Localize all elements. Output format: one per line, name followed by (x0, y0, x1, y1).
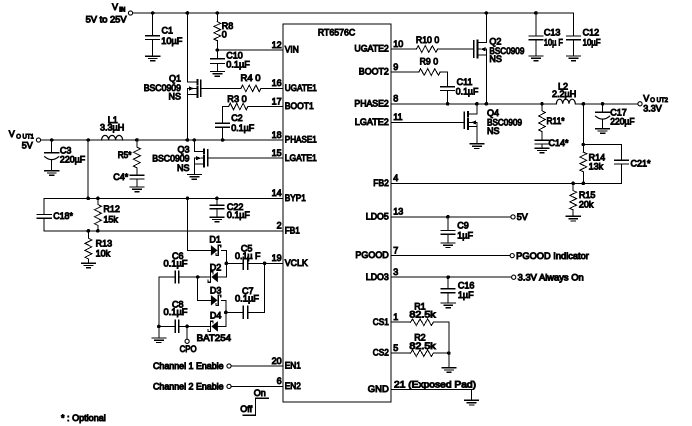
svg-text:1µF: 1µF (457, 230, 473, 240)
op-amp U1 RT6576C box (283, 24, 391, 402)
wire FB1 line (44, 230, 283, 232)
svg-text:FB1: FB1 (285, 226, 300, 236)
junction ground rail-D4 row (157, 325, 161, 329)
wire LGATE1 pin15 (208, 157, 283, 159)
svg-text:LDO5: LDO5 (366, 212, 389, 222)
svg-text:1: 1 (393, 312, 398, 322)
wire UGATE1 gate lead (201, 87, 241, 89)
svg-text:PHASE1: PHASE1 (285, 135, 317, 145)
ground C10 (210, 72, 224, 77)
svg-text:D1: D1 (209, 235, 221, 245)
inductor L2 (552, 82, 576, 104)
svg-text:0.1µF: 0.1µF (456, 86, 479, 96)
junction C7 riser-VCLK (263, 262, 267, 266)
diode D3 (210, 285, 222, 305)
wire UGATE2 pin10 (391, 48, 416, 50)
wire n2 to D3 (198, 277, 211, 300)
capacitor C2 (216, 107, 255, 141)
capacitor C11 (441, 77, 479, 96)
svg-text:V: V (9, 129, 15, 139)
junction C2-PHASE1 (221, 138, 225, 142)
junction R5 (135, 138, 139, 142)
capacitor C22 (210, 198, 250, 220)
svg-text:17: 17 (272, 96, 282, 106)
svg-text:UGATE2: UGATE2 (354, 44, 388, 54)
junction R12 bottom (96, 229, 100, 233)
ground charge pump (152, 338, 166, 343)
junction R14 bottom (582, 182, 586, 186)
svg-text:20k: 20k (579, 199, 594, 209)
svg-text:C1: C1 (162, 26, 174, 36)
wire VIN pin12 (216, 48, 284, 52)
junction R1R2 (447, 351, 451, 355)
svg-text:10: 10 (393, 39, 403, 49)
svg-text:LGATE1: LGATE1 (285, 153, 317, 163)
wire EN1 pin20 (231, 365, 283, 367)
resistor R11 (539, 104, 565, 141)
wire C7 to riser (248, 311, 265, 313)
svg-text:BOOT2: BOOT2 (359, 67, 389, 77)
transistor Q1 (187, 13, 201, 97)
svg-text:Off: Off (240, 404, 252, 414)
svg-text:11: 11 (393, 112, 402, 122)
junction D3 feed (196, 275, 200, 279)
svg-text:3.3V: 3.3V (643, 103, 662, 113)
ground C16 (441, 303, 455, 308)
svg-text:10µ F: 10µ F (544, 37, 563, 47)
svg-text:C4*: C4* (113, 172, 128, 182)
svg-text:C13: C13 (544, 27, 561, 37)
svg-text:VCLK: VCLK (285, 258, 308, 268)
svg-text:3.3µH: 3.3µH (100, 123, 124, 133)
junction R11 (540, 102, 544, 106)
label Q3 (152, 145, 189, 174)
svg-text:2.2µH: 2.2µH (552, 89, 576, 99)
wire Q3 source to ground (193, 164, 195, 174)
svg-text:NS: NS (177, 163, 190, 173)
svg-text:5V: 5V (22, 140, 33, 150)
svg-text:14: 14 (272, 188, 282, 198)
resistor R4 (241, 73, 261, 92)
diode D4 (197, 311, 231, 343)
svg-text:0.1µF: 0.1µF (227, 210, 250, 220)
node 3.3V terminal (512, 273, 584, 283)
svg-text:15k: 15k (103, 214, 118, 224)
ground R1R2 (442, 368, 456, 373)
svg-text:220µF: 220µF (610, 116, 635, 126)
ground C4 (130, 187, 144, 192)
ground C1 (146, 56, 160, 61)
wire R4 to pin16 (261, 87, 283, 89)
wire C21 branch (583, 145, 621, 161)
svg-text:82.5k: 82.5k (409, 341, 436, 351)
ground R15 (566, 216, 580, 221)
resistor R13 (85, 231, 112, 263)
resistor R15 (570, 183, 596, 216)
svg-text:R11*: R11* (547, 116, 565, 126)
svg-text:BAT254: BAT254 (197, 333, 231, 343)
svg-text:C12: C12 (583, 27, 600, 37)
junction C1-rail (151, 11, 155, 15)
svg-text:Channel 2 Enable: Channel 2 Enable (153, 381, 224, 391)
ground Q3 (187, 175, 201, 180)
svg-text:PGOOD Indicator: PGOOD Indicator (516, 251, 589, 261)
svg-text:PHASE2: PHASE2 (354, 98, 388, 108)
svg-text:CPO: CPO (180, 344, 197, 354)
wire D4 row (159, 325, 226, 327)
wire Q4 source to ground (476, 127, 478, 144)
capacitor C16 (441, 277, 474, 303)
wire LDO5 pin13 (391, 216, 511, 218)
svg-text:8: 8 (393, 94, 398, 104)
svg-text:6: 6 (277, 376, 282, 386)
diode D1 (209, 235, 221, 256)
transistor Q2 (474, 13, 487, 57)
capacitor C3 (45, 140, 86, 171)
svg-text:2: 2 (277, 221, 282, 231)
junction n3 C7 tap (224, 311, 228, 315)
svg-text:V: V (112, 2, 118, 12)
node VIN input terminal (86, 2, 133, 24)
wire PHASE2 line (391, 103, 638, 105)
wire C21 to FB2 (620, 164, 622, 183)
svg-text:PGOOD: PGOOD (355, 250, 389, 260)
label Q2 NS (489, 54, 502, 64)
junction R15 top (571, 182, 575, 186)
ground C17 (596, 129, 610, 134)
wire D3 cathode to n3 (221, 300, 226, 326)
svg-text:4: 4 (393, 173, 398, 183)
svg-text:VIN: VIN (285, 45, 299, 55)
svg-text:EN1: EN1 (285, 361, 301, 371)
transistor Q4 (464, 104, 476, 129)
wire PGOOD pin7 (391, 255, 510, 257)
inductor L1 (100, 115, 124, 140)
svg-text:C9: C9 (457, 221, 469, 231)
label Q2 (489, 36, 524, 56)
junction VOUT1-FB riser top (86, 138, 90, 142)
junction C17 (601, 102, 605, 106)
svg-text:0.1µ F: 0.1µ F (235, 251, 261, 261)
svg-text:V: V (643, 93, 649, 103)
diode D2 (208, 262, 221, 282)
wire ground rail stub (158, 326, 160, 338)
svg-text:NS: NS (489, 54, 502, 64)
svg-text:RT6576C: RT6576C (318, 27, 356, 37)
wire VOUT2 to divider (582, 104, 584, 145)
node 5V terminal (511, 212, 528, 222)
svg-text:Q1: Q1 (169, 73, 181, 83)
svg-text:0: 0 (222, 29, 227, 39)
capacitor C4 (113, 172, 143, 187)
capacitor C13 (529, 13, 563, 56)
junction C13-rail (534, 11, 538, 15)
node EN1 input (153, 361, 231, 371)
svg-text:BYP1: BYP1 (285, 193, 306, 203)
resistor R8 (214, 13, 233, 50)
svg-text:Channel 1 Enable: Channel 1 Enable (153, 361, 224, 371)
symbol on-off step (240, 388, 268, 415)
svg-text:1µF: 1µF (458, 290, 474, 300)
svg-text:10µF: 10µF (161, 36, 183, 46)
svg-text:0.1µF: 0.1µF (164, 307, 189, 317)
resistor R12 (95, 198, 120, 231)
label Q4 (487, 108, 522, 136)
svg-text:R13: R13 (96, 238, 113, 248)
wire C5 to pin19 (248, 262, 283, 264)
ground C14 (535, 148, 549, 153)
ground C22 (210, 217, 224, 222)
junction C9 (446, 215, 450, 219)
svg-text:9: 9 (393, 62, 398, 72)
node VOUT2 terminal (638, 93, 669, 113)
node EN2 input (153, 381, 231, 391)
junction R14-C21 split (582, 143, 586, 147)
wire VIN top rail (133, 12, 574, 14)
capacitor C18 (37, 211, 73, 221)
node PGOOD terminal (510, 251, 589, 261)
svg-text:BOOT1: BOOT1 (285, 101, 314, 111)
capacitor C1 (146, 13, 183, 56)
ground C13 (529, 56, 543, 61)
capacitor C7 (235, 286, 260, 319)
capacitor C9 (441, 217, 473, 243)
junction Q4 drain (475, 102, 479, 106)
wire CS2 pin5 (391, 352, 411, 354)
svg-text:220µF: 220µF (60, 154, 86, 164)
junction C11-PHASE2 (446, 102, 450, 106)
svg-text:R12: R12 (103, 204, 120, 214)
ground C9 (441, 243, 455, 248)
svg-text:IN: IN (119, 7, 125, 13)
wire PHASE1 line (41, 139, 283, 141)
ground C12 (567, 56, 581, 61)
junction CPO tap (185, 325, 189, 329)
wire GND pin21 (391, 390, 472, 401)
svg-text:5V: 5V (517, 212, 528, 222)
junction C22 (215, 197, 219, 201)
svg-text:FB2: FB2 (373, 178, 389, 188)
svg-text:10µF: 10µF (583, 37, 601, 47)
svg-text:13k: 13k (589, 162, 604, 172)
svg-text:5V to 25V: 5V to 25V (86, 15, 127, 25)
wire R2 to node (433, 352, 449, 354)
capacitor C5 (235, 243, 261, 269)
junction Q2 drain-rail (485, 11, 489, 15)
junction charge pump riser (186, 197, 190, 201)
junction C3 (50, 138, 54, 142)
wire C7 row (226, 311, 243, 313)
ground Q4 (470, 144, 484, 149)
svg-text:NS: NS (168, 92, 181, 102)
svg-text:UGATE1: UGATE1 (285, 83, 317, 93)
label Q1 (144, 73, 181, 101)
wire ground rail left (158, 277, 160, 326)
ground C3 (45, 171, 59, 176)
svg-text:EN2: EN2 (285, 381, 301, 391)
svg-text:7: 7 (393, 245, 398, 255)
svg-text:C2: C2 (231, 113, 243, 123)
svg-text:NS: NS (487, 126, 500, 136)
wire C7 riser (264, 263, 266, 312)
svg-text:0.1µF: 0.1µF (164, 259, 189, 269)
wire D1 cathode to n1 (221, 250, 226, 277)
node VOUT1 terminal (9, 129, 41, 150)
wire LDO3 pin3 (391, 276, 512, 278)
svg-text:82.5k: 82.5k (409, 310, 436, 320)
wire Q2 source to PHASE2 (485, 55, 487, 104)
labels IC right pins (354, 44, 389, 395)
junction Q1src-PHASE1 (186, 138, 190, 142)
transistor Q3 (194, 140, 208, 166)
svg-text:D2: D2 (210, 262, 222, 272)
svg-text:CS2: CS2 (373, 348, 389, 358)
wire LGATE2 pin11 (391, 121, 464, 123)
svg-text:R4 0: R4 0 (241, 73, 261, 83)
svg-text:D3: D3 (210, 285, 222, 295)
junction Q1drain-rail (186, 11, 190, 15)
junction Q3drain-PHASE1 (193, 138, 197, 142)
svg-text:16: 16 (272, 78, 282, 88)
svg-text:0.1µF: 0.1µF (235, 294, 260, 304)
wire C18 left branch top (43, 198, 45, 214)
svg-text:20: 20 (272, 356, 282, 366)
svg-text:15: 15 (272, 148, 282, 158)
svg-text:3.3V Always On: 3.3V Always On (518, 273, 584, 283)
resistor R2 (409, 332, 436, 356)
capacitor C6 (164, 251, 189, 283)
svg-text:R10 0: R10 0 (416, 35, 439, 45)
label optional note (61, 413, 106, 423)
svg-text:LDO3: LDO3 (366, 272, 389, 282)
wire BYP1 line (44, 197, 283, 199)
junction R8-rail (216, 11, 220, 15)
wire C18 left branch bottom (43, 218, 45, 231)
junction Q2src-PHASE2 (485, 102, 489, 106)
wire R1 to CS2 node (433, 322, 449, 353)
pin numbers left (272, 40, 282, 386)
svg-text:D4: D4 (210, 311, 222, 321)
wire D2 row (159, 276, 227, 278)
svg-text:* : Optional: * : Optional (61, 413, 106, 423)
svg-text:10k: 10k (96, 249, 111, 259)
wire BOOT1 pin17 (223, 106, 283, 108)
svg-text:12: 12 (272, 40, 282, 50)
wire VOUT1 to divider (87, 140, 89, 198)
svg-text:LGATE2: LGATE2 (355, 117, 389, 127)
capacitor C12 (567, 13, 601, 56)
resistor R10 (416, 35, 439, 52)
capacitor C10 (211, 50, 251, 72)
labels IC left pins (285, 45, 317, 391)
ground R13 (82, 263, 96, 268)
capacitor C21 (615, 158, 651, 168)
wire EN2 pin6 (231, 385, 283, 387)
svg-text:21 (Exposed Pad): 21 (Exposed Pad) (394, 379, 476, 389)
wire CS node to ground (448, 353, 450, 368)
junction R14 branch (582, 102, 586, 106)
junction R13 top (87, 229, 91, 233)
resistor R5 (118, 140, 141, 175)
svg-text:GND: GND (368, 384, 390, 394)
svg-text:0.1µF: 0.1µF (231, 123, 254, 133)
svg-text:C21*: C21* (631, 158, 651, 168)
wire Q1 source to PHASE1 (186, 95, 188, 141)
svg-text:C14*: C14* (549, 138, 569, 148)
svg-text:C18*: C18* (53, 211, 73, 221)
resistor R3 (227, 94, 248, 110)
svg-text:On: On (254, 388, 266, 398)
ground GND pin (465, 400, 479, 405)
junction VOUT1 riser-BYP1 (86, 197, 90, 201)
svg-text:R3 0: R3 0 (227, 94, 247, 104)
resistor R14 (580, 145, 605, 184)
pin 21 exposed pad label (394, 379, 476, 389)
junction C16 (446, 275, 450, 279)
node CPO terminal (180, 326, 197, 353)
wire BYP1 to D1 (188, 198, 211, 250)
wire FB2 line (391, 182, 621, 184)
wire BOOT2 pin9 (391, 71, 419, 73)
svg-text:0.1µF: 0.1µF (226, 60, 250, 70)
svg-text:18: 18 (272, 130, 282, 140)
capacitor C17 (596, 104, 635, 129)
wire R10 to Q2 gate (438, 48, 475, 50)
wire VCLK line (226, 262, 243, 264)
svg-text:19: 19 (272, 253, 282, 263)
wire C11 to PHASE2 (447, 91, 449, 104)
svg-text:CS1: CS1 (373, 317, 389, 327)
svg-text:R9 0: R9 0 (420, 56, 439, 66)
junction n1 VCLK tap (225, 262, 229, 266)
capacitor C14 (535, 138, 569, 148)
pin numbers right (393, 39, 403, 353)
wire CS1 pin1 (391, 321, 411, 323)
wire R9 to C11 (440, 72, 447, 87)
svg-text:R5*: R5* (118, 150, 132, 160)
capacitor C8 (164, 300, 189, 333)
resistor R9 (419, 56, 440, 75)
svg-text:3: 3 (393, 267, 398, 277)
svg-text:Q2: Q2 (489, 36, 501, 46)
junction R12 top (96, 197, 100, 201)
svg-text:13: 13 (393, 207, 403, 217)
svg-text:5: 5 (393, 343, 398, 353)
resistor R1 (409, 301, 436, 325)
